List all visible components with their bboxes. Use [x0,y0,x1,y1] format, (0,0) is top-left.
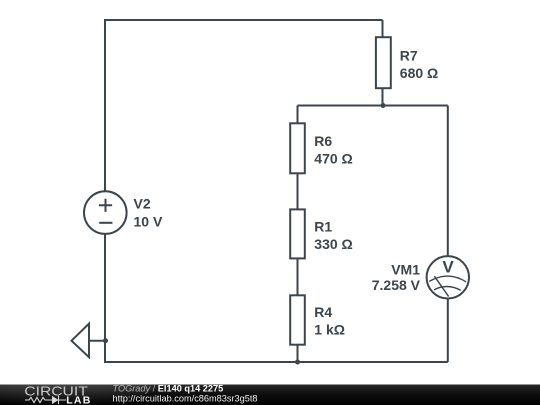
junction dot at ground [103,338,108,343]
svg-text:R4: R4 [314,304,332,320]
logo diode triangle [52,396,59,404]
svg-text:R1: R1 [314,219,332,235]
junction dot below R7 [381,103,386,108]
wire R6 top lead [297,106,299,124]
resistor R7 body [376,37,391,88]
wire R7 top lead [382,20,384,38]
V2 minus sign [99,222,112,224]
wire R7 bottom lead [382,88,384,106]
wire middle horizontal node [298,105,448,107]
wire R4 bottom lead [297,345,299,362]
voltmeter VM1 scale arcs and needle [429,276,466,296]
resistor R4 body [290,295,305,344]
V2 plus sign [99,199,112,212]
ground triangle [72,324,90,358]
wire left vertical V2 top [104,19,106,191]
svg-text:http://circuitlab.com/c86m83sr: http://circuitlab.com/c86m83sr3g5t8 [113,393,258,403]
wire bottom horizontal [104,361,448,363]
resistor R6 body [290,123,305,173]
logo zigzag resistor and diode [25,396,66,404]
svg-text:680 Ω: 680 Ω [400,65,438,81]
svg-text:R6: R6 [314,133,332,149]
svg-text:LAB: LAB [66,395,91,405]
svg-text:V: V [442,258,454,277]
footer bar [0,385,540,405]
wire R6 to R1 [297,173,299,209]
wire voltmeter bottom lead [447,298,449,362]
wire right vertical to voltmeter [447,106,449,257]
svg-text:TOGrady / EI140 q14 2275: TOGrady / EI140 q14 2275 [113,384,224,394]
svg-text:1 kΩ: 1 kΩ [314,322,345,338]
wire R1 to R4 [297,258,299,295]
svg-text:R7: R7 [400,48,418,64]
resistor R1 body [290,209,305,258]
wire top from V2 column to R7 [105,19,383,21]
svg-text:V2: V2 [134,196,151,212]
svg-text:VM1: VM1 [391,261,420,277]
ground stub wire [89,340,106,342]
svg-text:7.258 V: 7.258 V [372,277,421,293]
svg-text:470 Ω: 470 Ω [314,151,352,167]
voltmeter VM1 circle [427,256,469,298]
svg-text:10 V: 10 V [134,214,163,230]
junction dot below R4 [295,360,300,365]
wire left vertical V2 bottom to ground corner [104,234,106,362]
voltage source V2 circle [84,191,127,234]
svg-text:330 Ω: 330 Ω [314,236,352,252]
